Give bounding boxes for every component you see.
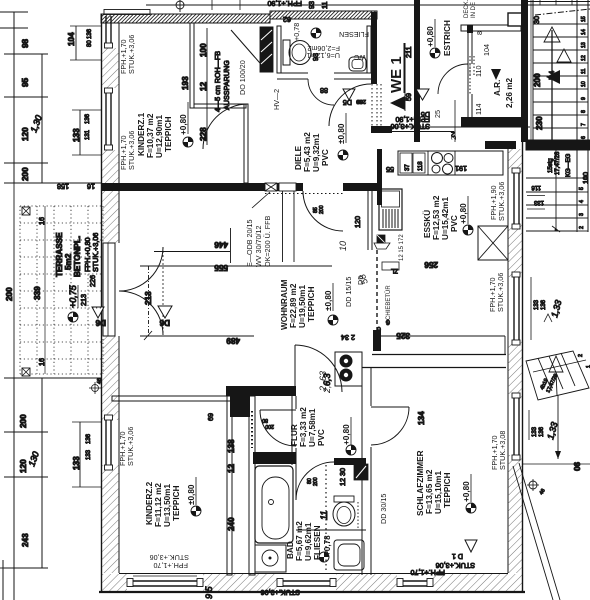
right dim window2 133 136: [531, 277, 563, 340]
svg-text:136: 136: [539, 426, 545, 437]
label aussparung: [213, 51, 231, 112]
fph right wall window2: [488, 273, 505, 312]
svg-text:114: 114: [474, 104, 483, 115]
svg-text:DO 100/20: DO 100/20: [238, 60, 247, 95]
dotted sill line: [265, 193, 345, 195]
dim text 12 30 bad: [338, 468, 347, 486]
svg-text:62: 62: [283, 15, 291, 24]
stair treads lower: [526, 178, 588, 231]
window glazing right w3: [512, 393, 520, 460]
svg-text:9 5: 9 5: [204, 585, 214, 599]
survey symbol kinderz2: [191, 506, 201, 516]
dim chain left lower line B: [41, 378, 43, 568]
svg-text:4—5 cm ROH—FB: 4—5 cm ROH—FB: [213, 51, 222, 112]
exterior stair arrow: [549, 356, 563, 395]
svg-text:158: 158: [57, 182, 69, 191]
dim text 95: [21, 77, 30, 87]
label DD30/15 schlaf: [379, 494, 388, 524]
dim col kinderz1 line: [206, 28, 208, 145]
survey symbol bad: [319, 552, 329, 562]
level KINDERZ.1: [179, 102, 188, 135]
svg-text:STUK.+3,06: STUK.+3,06: [261, 588, 300, 597]
room label DIELE: [294, 132, 330, 172]
svg-text:46: 46: [97, 378, 103, 384]
label D5 lower: [356, 276, 365, 285]
label HV-2: [272, 89, 281, 110]
fixture bad basin: [255, 545, 286, 572]
dim text 62: [283, 15, 291, 24]
svg-text:2: 2: [449, 136, 458, 140]
svg-text:133: 133: [532, 426, 538, 437]
svg-text:DD 15/15: DD 15/15: [344, 277, 353, 307]
svg-text:37: 37: [405, 164, 411, 171]
stair lower dim line: [552, 150, 560, 232]
dim chain left vertical line B: [41, 54, 43, 183]
marker D6 inner: [149, 266, 173, 336]
wall schlafzimmer left: [362, 354, 371, 575]
svg-text:95: 95: [21, 77, 30, 87]
svg-text:325: 325: [396, 331, 410, 340]
dim text 489: [140, 331, 254, 345]
svg-text:PVC: PVC: [321, 149, 330, 166]
fixture WC toilet: [283, 40, 311, 65]
level WOHNRAUM: [324, 283, 333, 311]
label ESTRICH: [443, 20, 452, 56]
svg-text:STUK.+3,06: STUK.+3,06: [91, 233, 100, 272]
dim top row line: [146, 0, 590, 10]
svg-text:93: 93: [307, 1, 316, 9]
dim text 6 6: [377, 318, 390, 334]
label beam EODB: [245, 215, 272, 267]
svg-text:200: 200: [21, 167, 30, 181]
svg-text:15: 15: [581, 16, 587, 22]
svg-text:E—ODB 20/15: E—ODB 20/15: [245, 219, 254, 267]
stair treads upper flight: [533, 24, 588, 128]
fixture duct hatch diele: [260, 27, 273, 72]
svg-text:100: 100: [581, 172, 590, 184]
svg-text:134: 134: [417, 411, 426, 425]
svg-text:F=10,37 m2: F=10,37 m2: [146, 113, 155, 158]
handwritten 2 63: [318, 371, 328, 392]
dim text 12: [199, 81, 208, 91]
svg-text:SCHLAFZIMMER: SCHLAFZIMMER: [416, 450, 425, 516]
svg-text:446: 446: [214, 240, 228, 249]
dim text 134 schlafzimmer: [417, 411, 426, 425]
svg-text:U=7,58m1: U=7,58m1: [308, 408, 317, 447]
wall WE1 right vertical: [414, 0, 420, 142]
dims AR: [433, 31, 491, 140]
svg-text:213: 213: [79, 294, 88, 306]
wall right exterior outline: [508, 141, 523, 592]
label 1205 72: [399, 234, 405, 261]
survey symbol wohnraum: [328, 315, 338, 325]
stair cut dashdot line: [535, 9, 590, 15]
svg-text:138: 138: [227, 439, 236, 453]
door arc AR: [438, 56, 474, 94]
svg-text:TEPPICH: TEPPICH: [443, 472, 452, 508]
window glazing right w2: [512, 272, 520, 345]
stair arrow line: [544, 27, 571, 140]
svg-text:D4: D4: [547, 71, 556, 80]
svg-text:D6: D6: [95, 318, 106, 327]
svg-text:11: 11: [581, 69, 587, 74]
wall kinderz2 right: [227, 396, 250, 575]
wall AR right stair: [521, 0, 528, 142]
dim line 446 555: [230, 228, 232, 263]
svg-text:14: 14: [581, 29, 587, 35]
fixture appliance striped: [379, 189, 402, 230]
svg-text:TERRASSE: TERRASSE: [55, 232, 64, 277]
svg-text:98: 98: [21, 38, 30, 48]
room label ESSKU: [422, 195, 459, 240]
svg-text:10: 10: [581, 81, 587, 87]
survey symbol wc: [311, 28, 321, 38]
svg-text:FLUR: FLUR: [290, 424, 299, 446]
svg-text:200: 200: [357, 98, 366, 104]
dim window 104: [67, 26, 101, 60]
wall top exterior: [101, 10, 270, 24]
svg-text:+0,75: +0,75: [68, 284, 78, 308]
svg-text:F=13,65 m2: F=13,65 m2: [425, 469, 434, 514]
svg-text:OK=200 Ü. FFB: OK=200 Ü. FFB: [263, 215, 272, 267]
svg-text:17,47/28: 17,47/28: [555, 151, 561, 175]
wall left pier 3 hatch: [102, 336, 119, 420]
svg-text:131: 131: [85, 129, 91, 140]
door arc D5 we1-diele: [329, 84, 371, 126]
dim text 240: [227, 517, 236, 531]
svg-text:STUK.+3,06: STUK.+3,06: [127, 35, 136, 74]
dim line bottom left corner: [0, 560, 14, 600]
marker D5 filled triangle we1: [390, 87, 413, 111]
label WE 1: [388, 43, 405, 93]
fixture small xbox kitchen: [374, 235, 390, 249]
left line terrace 200: [5, 183, 14, 378]
svg-text:136: 136: [86, 433, 92, 444]
wall left exterior outline: [102, 14, 120, 592]
dim text 9 5 bottom: [204, 585, 214, 599]
svg-text:F=22,89 m2: F=22,89 m2: [289, 283, 298, 328]
svg-text:30: 30: [532, 16, 541, 24]
door arc wohnraum-flur: [295, 345, 342, 392]
dim text 69: [206, 413, 215, 421]
wall right pier 2 hatch: [508, 224, 522, 277]
terrace label: [55, 232, 82, 277]
handwritten 58: [357, 273, 370, 286]
svg-text:±0,80: ±0,80: [337, 123, 346, 144]
dim chain left lower line A: [13, 378, 15, 600]
wall below WE1 horizontal: [485, 141, 516, 149]
wall WC left: [277, 26, 281, 73]
marker D1 schlafzimmer: [452, 540, 477, 561]
window glazing left w2: [105, 88, 113, 150]
door arc schlafzimmer: [371, 407, 409, 445]
svg-text:200: 200: [265, 423, 274, 429]
room label BAD: [286, 521, 332, 561]
svg-text:256: 256: [424, 260, 438, 269]
dim text 120: [21, 127, 30, 141]
stair dim 100 right: [581, 172, 590, 184]
text stuk bottom right upside: [410, 561, 475, 577]
wall right pier 1 hatch: [508, 149, 522, 173]
svg-text:HV—2: HV—2: [272, 89, 281, 110]
fixture stove: [432, 153, 454, 175]
wall left pier 2 hatch: [102, 150, 119, 243]
stair landing band: [526, 140, 590, 150]
svg-text:80: 80: [262, 417, 268, 423]
svg-text:11: 11: [319, 511, 329, 520]
dim text 12 niche: [227, 463, 236, 473]
svg-text:8: 8: [581, 110, 587, 113]
dim text 85 200 wohnraum door: [313, 205, 325, 214]
wall AR left: [467, 25, 473, 117]
svg-text:STUK.+3,06: STUK.+3,06: [391, 122, 430, 131]
exterior stair parallelogram: [526, 351, 589, 400]
svg-text:243: 243: [21, 533, 30, 547]
svg-text:193: 193: [181, 76, 190, 90]
svg-text:DD 30/15: DD 30/15: [379, 494, 388, 524]
fixture bathtub: [255, 466, 293, 543]
fixture kitchen counter: [398, 151, 503, 175]
svg-text:339: 339: [33, 286, 42, 300]
wall bottom pier 2 hatch: [203, 574, 277, 591]
svg-text:WV 30/70/12: WV 30/70/12: [254, 225, 263, 267]
dim text 228: [199, 127, 208, 141]
dim window 133 top: [72, 110, 101, 155]
svg-text:6,3: 6,3: [322, 373, 332, 386]
wall AR bottom: [461, 117, 528, 127]
marker D5 right triangle: [416, 89, 430, 119]
wall essku left: [377, 149, 382, 205]
fixture shaft xbox essku: [478, 226, 508, 260]
fph kinderz1 window top: [119, 35, 136, 74]
terrace dim 226: [88, 275, 97, 287]
diagonal property lines bottom right: [513, 463, 560, 600]
svg-text:69: 69: [206, 413, 215, 421]
wall right of WC vertical: [371, 12, 381, 126]
door arc kinderz1: [203, 104, 248, 149]
fph kinderz1 window lower: [119, 131, 136, 170]
wall bad top right band: [334, 458, 366, 465]
fixture WC basin: [349, 57, 366, 71]
dim text 213 wohnraum: [144, 291, 153, 305]
survey symbol essku: [463, 225, 473, 235]
svg-text:2: 2: [578, 354, 584, 357]
terrace corner xbox bottom: [22, 358, 46, 376]
dim text 555: [214, 263, 228, 272]
dim text 158: [57, 182, 69, 191]
wall essku bottom: [362, 336, 506, 368]
exterior stair labels: [539, 354, 590, 394]
svg-text:STUK.+3,08: STUK.+3,08: [498, 431, 507, 470]
wall bottom pier 4 hatch: [433, 574, 522, 591]
room label AR: [493, 78, 514, 108]
svg-text:STUK.+3,06: STUK.+3,06: [150, 553, 189, 562]
wall kinderz1 jog horizontal: [194, 104, 246, 108]
wall mid horizontal y183: [101, 183, 377, 191]
svg-text:TEPPICH: TEPPICH: [164, 116, 173, 152]
svg-text:10: 10: [338, 241, 348, 251]
wall WC top: [270, 11, 377, 19]
right label 90 rotated: [572, 462, 581, 472]
wall WC bottom: [277, 73, 371, 79]
svg-text:AUSSPARUNG: AUSSPARUNG: [222, 60, 231, 110]
dim text 130 handwritten: [28, 114, 43, 134]
dim text 2 essku: [451, 130, 455, 139]
stair label kg-eg: [548, 151, 572, 177]
svg-text:2 34: 2 34: [341, 333, 355, 342]
symbol crosshair top: [173, 0, 187, 12]
dim text 243: [21, 533, 30, 547]
marker D5 upper left triangle: [343, 89, 366, 107]
dim text 88: [320, 86, 328, 95]
svg-text:U=15,10m1: U=15,10m1: [434, 471, 443, 514]
dim text 325: [396, 331, 410, 340]
wall kinderz1 lower right: [244, 104, 248, 183]
fph kinderz2 bottom upside: [150, 553, 189, 570]
stair marker D4: [547, 71, 556, 80]
wall niche kitchen: [368, 190, 372, 250]
svg-text:59: 59: [404, 93, 413, 101]
right crosshair 46: [527, 479, 547, 496]
svg-text:ZL: ZL: [390, 267, 398, 273]
terrace dim line 339: [44, 206, 46, 374]
crosshair symbol wohnraum left: [89, 378, 103, 394]
svg-text:FPH.+1,90: FPH.+1,90: [267, 0, 302, 8]
fph schlafzimmer right: [490, 431, 507, 470]
svg-text:136: 136: [541, 299, 547, 310]
dim text 100: [199, 43, 208, 57]
svg-text:STUK.+3,06: STUK.+3,06: [496, 273, 505, 312]
svg-text:KG—EG: KG—EG: [566, 153, 572, 177]
svg-text:A.R.: A.R.: [493, 80, 502, 96]
svg-text:230: 230: [535, 116, 544, 130]
room label FLUR: [290, 407, 326, 447]
wall left pier 4 hatch: [102, 465, 119, 573]
svg-text:STUK.+3,06: STUK.+3,06: [126, 427, 135, 466]
svg-text:STUK.+3,06: STUK.+3,06: [127, 131, 136, 170]
wall WC right: [367, 26, 371, 73]
svg-text:12: 12: [199, 81, 208, 91]
svg-text:TEPPICH: TEPPICH: [307, 286, 316, 322]
svg-text:D 1: D 1: [452, 552, 463, 561]
text fph we1 corridor upside: [391, 115, 430, 131]
svg-text:2: 2: [579, 226, 585, 229]
dim text 200 top: [21, 167, 30, 181]
dim text 120 lower: [19, 459, 28, 473]
svg-text:+0,80: +0,80: [459, 203, 468, 224]
svg-text:25: 25: [433, 110, 442, 118]
dim text 211: [404, 47, 413, 58]
svg-text:110: 110: [474, 66, 483, 77]
svg-text:200: 200: [533, 73, 542, 87]
dim text 120 door top: [0, 0, 1, 1]
room label WC: [307, 30, 369, 62]
svg-text:FPH.+1,70: FPH.+1,70: [410, 568, 445, 577]
svg-text:±0,80: ±0,80: [187, 484, 196, 505]
dim window 133 lower: [72, 422, 101, 487]
svg-text:U=9,32m1: U=9,32m1: [312, 133, 321, 172]
svg-text:133: 133: [72, 456, 81, 470]
terrace dim 213 door: [79, 294, 88, 306]
svg-text:BAD: BAD: [286, 541, 295, 559]
dim text 16a: [87, 182, 95, 191]
svg-text:WE 1: WE 1: [388, 56, 405, 93]
label DECKENDURCHBRUCH: [464, 0, 477, 18]
svg-text:136: 136: [85, 113, 91, 124]
svg-text:U=13,50m1: U=13,50m1: [163, 484, 172, 527]
dim text 193: [181, 76, 190, 90]
svg-text:SCHIEBETÜR: SCHIEBETÜR: [385, 285, 392, 324]
svg-text:200: 200: [5, 287, 14, 301]
survey symbol kinderz1: [183, 137, 193, 147]
right boundary corner lines: [523, 463, 590, 465]
label DO 100/20: [238, 60, 247, 95]
svg-text:D5: D5: [343, 98, 352, 107]
svg-text:55: 55: [386, 165, 394, 174]
svg-text:104: 104: [482, 44, 491, 56]
survey symbol flur: [346, 445, 356, 455]
wall AR top: [461, 13, 523, 31]
svg-text:+0,80: +0,80: [462, 481, 471, 502]
survey symbol diele: [338, 150, 348, 160]
dim text 446: [154, 240, 230, 252]
room label SCHLAFZIMMER: [416, 450, 452, 516]
wall flur top band: [226, 386, 296, 396]
window glazing right w1: [512, 168, 520, 229]
svg-text:F=11,12 m2: F=11,12 m2: [154, 483, 163, 527]
level WC: [292, 23, 301, 41]
svg-text:PVC: PVC: [317, 429, 326, 446]
dim text 200 lower: [19, 414, 28, 428]
svg-text:133: 133: [533, 199, 544, 205]
room label KINDERZ.2: [145, 481, 181, 527]
terrace door threshold: [103, 243, 115, 336]
svg-text:5m2: 5m2: [64, 253, 73, 270]
svg-text:U=15,42m1: U=15,42m1: [441, 197, 450, 240]
sliding door dashed schiebetuer: [376, 250, 378, 330]
svg-text:3: 3: [579, 213, 585, 216]
svg-text:12 30: 12 30: [338, 468, 347, 486]
svg-text:226: 226: [88, 275, 97, 287]
svg-text:U=9,62m1: U=9,62m1: [304, 522, 313, 561]
fixture bad basin2: [334, 540, 364, 570]
terrace level handwritten: [68, 284, 78, 308]
svg-text:228: 228: [199, 127, 208, 141]
svg-text:STUK.+3,06: STUK.+3,06: [497, 182, 506, 221]
text stuk bottom mid upside: [261, 588, 300, 597]
svg-text:6: 6: [377, 325, 381, 334]
stair top edge ticks: [528, 0, 590, 5]
svg-text:13: 13: [581, 42, 587, 48]
fixture ZL box: [382, 262, 399, 273]
svg-text:555: 555: [214, 263, 228, 272]
window glazing bottom b3: [397, 579, 433, 587]
dim text 130 lower handwritten: [26, 450, 41, 468]
svg-text:+0,80: +0,80: [179, 114, 188, 135]
survey symbol terrasse: [68, 312, 78, 322]
svg-text:2,26 m2: 2,26 m2: [505, 78, 514, 108]
door arcs terrace double: [119, 247, 163, 335]
wall left pier 1 hatch: [102, 48, 119, 88]
handwritten 2 9 flur: [322, 380, 332, 394]
terrace corner xbox top: [22, 207, 46, 225]
label DD15/15: [344, 277, 353, 307]
label SCHIEBETUER: [385, 285, 392, 324]
wall right pier 4 hatch: [508, 455, 522, 573]
svg-text:F=5,67 m2: F=5,67 m2: [295, 521, 304, 561]
wall bottom pier 1 hatch: [102, 574, 127, 591]
svg-text:4: 4: [579, 200, 585, 203]
